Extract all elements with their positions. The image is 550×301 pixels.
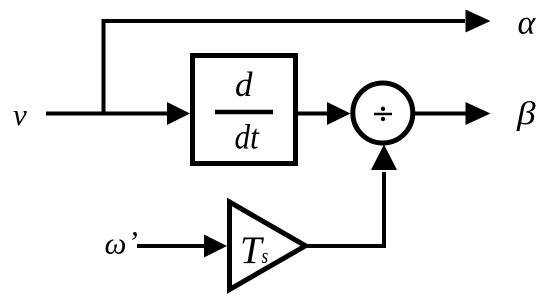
fraction bar of d/dt <box>215 110 273 115</box>
svg-text:α: α <box>518 5 537 42</box>
svg-text:ω: ω <box>105 226 127 261</box>
divider U2: circle <box>353 83 413 143</box>
arrowhead up into divider bottom <box>371 145 397 171</box>
svg-text:d: d <box>235 65 253 104</box>
wire: top horizontal to alpha <box>102 19 466 23</box>
wire: v input horizontal <box>46 112 170 116</box>
svg-text:s: s <box>262 244 269 269</box>
svg-text:T: T <box>240 229 264 272</box>
svg-text:β: β <box>516 95 536 132</box>
gain block Ts: triangle <box>230 202 306 290</box>
svg-text:v: v <box>13 97 27 132</box>
wire: divider to beta <box>414 112 466 116</box>
divide sign bar <box>374 113 392 116</box>
wire: d/dt to divider <box>297 112 330 116</box>
wire: vertical up into divider <box>382 172 386 248</box>
wire: omega to gain triangle <box>137 244 207 248</box>
block U1: d/dt derivative <box>193 56 296 164</box>
arrowhead into divider <box>327 102 351 125</box>
arrowhead into gain triangle <box>204 235 227 258</box>
arrowhead into d/dt block <box>167 102 190 125</box>
wire: branch vertical up from v <box>102 19 106 116</box>
wire: gain triangle to corner <box>305 244 386 248</box>
arrowhead to beta <box>466 102 491 125</box>
svg-text:dt: dt <box>235 118 260 157</box>
svg-text:’: ’ <box>128 224 138 259</box>
divide sign upper dot <box>381 107 385 111</box>
arrowhead to alpha <box>466 10 491 33</box>
divide sign lower dot <box>381 117 385 121</box>
